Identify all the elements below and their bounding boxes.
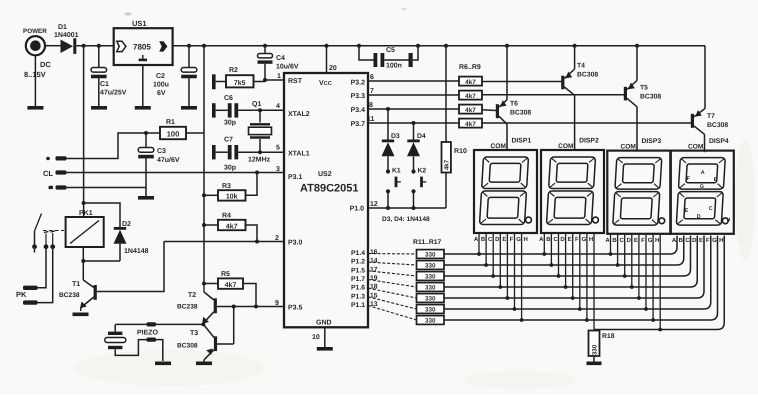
wire segment bus E [444,236,704,298]
svg-text:R10: R10 [454,148,467,155]
svg-text:330: 330 [591,344,598,355]
svg-text:C: C [709,206,713,212]
piezo PIEZO [105,330,159,350]
node D3 branch [386,107,390,111]
node raw+ junction [82,44,86,48]
diode D2 1N4148 [114,221,149,261]
wire contact to PK terminal 1 [38,247,47,288]
svg-text:C: C [488,236,493,243]
svg-text:12: 12 [370,201,378,208]
svg-text:C1: C1 [100,81,109,88]
svg-text:COM: COM [558,143,574,150]
diode D3 1N4148 [382,109,400,170]
node DISP2 F junction [578,307,582,311]
ground (piezo) [155,362,171,366]
wire piezo bottom to ground [115,338,163,362]
resistor R18 330 [589,331,615,362]
resistor R17 330 [417,316,445,325]
node D4 branch [412,121,416,125]
node DISP1 C junction [491,274,495,278]
wire P1 pin to R14 [368,280,417,288]
svg-text:BC238: BC238 [177,304,198,311]
svg-text:B: B [612,237,617,244]
svg-text:DC: DC [40,60,51,69]
svg-text:COM: COM [491,143,507,150]
svg-text:D: D [697,214,701,220]
svg-text:P3.4: P3.4 [351,107,366,114]
svg-text:BC238: BC238 [59,292,80,299]
svg-text:7805: 7805 [133,43,151,52]
svg-text:9: 9 [275,300,279,307]
pushbutton K2 [411,168,426,209]
wire segment bus A [444,236,677,254]
node K1 junction [386,206,390,210]
svg-text:R3: R3 [222,183,231,190]
wire junction into PK1 coil [83,203,85,217]
wire contact to PK terminal 2 [38,247,53,303]
svg-text:F: F [510,236,514,243]
ground (US2 GND) [317,347,333,351]
wire R7 to T5 base [482,94,624,96]
wire DISP1 pin F drop [514,233,516,309]
wire DISP3 pin H drop [659,235,661,330]
svg-text:RST: RST [288,78,303,85]
svg-text:100: 100 [167,130,180,139]
resistor R2 7k5 [212,67,265,89]
svg-text:T2: T2 [188,292,196,299]
svg-text:D3, D4: 1N4148: D3, D4: 1N4148 [382,216,430,223]
wire R9 to T7 base [482,122,691,124]
svg-text:C: C [553,236,558,243]
connector POWER (DC jack) [23,28,51,79]
node DISP2 B junction [550,263,554,267]
node DISP3 A junction [609,252,613,256]
wire DISP1 pin B drop [485,233,487,265]
svg-text:R18: R18 [602,333,615,340]
svg-text:330: 330 [425,307,436,314]
display DISP2 7-segment [539,138,604,244]
svg-text:D: D [560,236,565,243]
svg-text:C3: C3 [157,148,166,155]
svg-text:C4: C4 [276,55,285,62]
svg-text:BC308: BC308 [577,72,598,79]
node DISP3 G junction [651,318,655,322]
svg-text:4k7: 4k7 [465,79,476,86]
wire segment bus B [444,236,684,265]
ground (power connector) [27,106,43,110]
svg-text:US1: US1 [132,19,147,28]
svg-text:K2: K2 [418,168,427,175]
node C1 junction [97,44,101,48]
svg-text:E: E [685,208,689,214]
svg-text:H: H [589,236,593,243]
svg-text:100n: 100n [386,63,402,70]
transistor T1 BC238 [59,280,97,311]
svg-text:C5: C5 [386,47,395,54]
svg-text:T7: T7 [707,113,715,120]
display DISP3 7-segment [605,138,670,244]
microcontroller US2 AT89C2051 [284,73,368,327]
svg-text:D3: D3 [391,133,400,140]
wire +5V rail corner down to T7 [704,46,706,109]
transistor T6 BC308 [496,44,532,150]
ground (R18) [587,362,602,366]
svg-text:P1.1: P1.1 [351,302,365,309]
wire D1 to 7805 input [76,45,113,47]
transistor T5 BC308 [624,44,662,151]
svg-text:P1.7: P1.7 [351,276,365,283]
wire junction to D2 top [84,203,120,227]
transistor T4 BC308 [561,44,598,150]
svg-text:P1.2: P1.2 [351,259,365,266]
svg-text:T6: T6 [510,101,518,108]
svg-text:E: E [568,236,572,243]
svg-text:US2: US2 [318,171,332,178]
wire P3.3 to R7 [368,94,459,96]
resistor R16 330 [417,305,445,314]
node DISP3 F junction [644,307,648,311]
svg-text:C: C [620,237,625,244]
wire segment bus F [444,236,711,309]
ground (T3 emitter) [196,362,212,366]
svg-text:C7: C7 [224,137,233,144]
svg-text:D4: D4 [417,133,426,140]
svg-text:330: 330 [425,263,436,270]
svg-text:T3: T3 [190,330,198,337]
wire R6 to T4 base [482,81,561,83]
svg-text:4k7: 4k7 [443,159,450,170]
svg-text:PK1: PK1 [79,210,93,217]
svg-text:D1: D1 [58,24,67,31]
svg-text:330: 330 [425,274,436,281]
svg-text:AT89C2051: AT89C2051 [300,183,359,195]
wire DISP2 pin G drop [586,233,588,320]
resistor R14 330 [417,283,445,292]
svg-text:A: A [605,237,610,244]
svg-text:B: B [546,236,551,243]
svg-text:7k5: 7k5 [234,79,246,87]
svg-text:4: 4 [276,103,280,110]
node DISP1 E junction [506,296,510,300]
resistor R7 4k7 [459,91,482,101]
node DISP2 D junction [564,285,568,289]
terminal CL [43,169,67,178]
capacitor C4 10u/6V [258,44,299,80]
capacitor C5 100n [357,44,420,70]
svg-text:330: 330 [425,318,436,325]
svg-text:R6..R9: R6..R9 [459,64,481,71]
wire DISP2 pin D drop [565,233,567,287]
diode D4 1N4148 [407,123,426,170]
svg-text:H: H [719,237,723,244]
svg-text:3: 3 [276,166,280,173]
svg-text:16: 16 [370,249,378,256]
svg-text:330: 330 [425,252,436,259]
svg-text:E: E [634,237,638,244]
svg-text:P3.0: P3.0 [288,240,303,247]
svg-text:330: 330 [425,296,436,303]
svg-text:E: E [502,236,506,243]
ground (C1) [91,106,107,110]
svg-text:F: F [641,237,645,244]
wire P1 pin to R17 [368,306,417,321]
resistor R4 4k7 [202,213,259,244]
svg-text:BC308: BC308 [640,94,661,101]
svg-text:4k7: 4k7 [465,107,476,114]
terminal PK pair [16,286,38,305]
svg-text:B: B [481,236,486,243]
svg-text:30p: 30p [224,120,236,127]
svg-text:PK: PK [16,290,27,299]
svg-text:B: B [679,237,684,244]
svg-text:D: D [495,236,500,243]
wire DISP3 pin E drop [638,234,640,298]
wire DISP3 pin A drop [610,234,612,254]
svg-text:R11..R17: R11..R17 [413,239,442,246]
wire 7805 ground lead [142,65,144,106]
svg-text:D: D [627,237,632,244]
wire DISP3 pin B drop [617,234,619,265]
svg-text:P3.3: P3.3 [351,93,366,100]
ground (T1 emitter) [73,313,89,317]
svg-text:17: 17 [370,266,378,273]
svg-text:4k7: 4k7 [465,121,476,128]
display DISP4 7-segment [671,138,734,244]
wire R8 to T6 base [482,109,496,112]
svg-text:CL: CL [43,169,53,178]
wire DISP2 pin A drop [543,233,545,254]
svg-text:C2: C2 [156,73,165,80]
svg-text:11: 11 [367,116,375,123]
svg-text:GND: GND [316,320,332,327]
relay contacts (PK1 switch) [32,214,64,253]
svg-text:7: 7 [370,88,374,95]
wire vertical bus from +5 rail [202,44,206,284]
svg-text:10u/6V: 10u/6V [276,63,299,71]
wire DISP3 pin F drop [645,234,647,309]
svg-text:A: A [539,236,544,243]
wire P1 pin to R12 [368,262,417,265]
wire terminal3 to ground [67,188,147,197]
resistor R13 330 [417,272,445,281]
wire P3.4 to R8 [368,108,459,110]
wire segment bus G [444,236,718,320]
wire segment bus D [444,236,697,287]
wire junction down to T1 collector [82,261,84,280]
capacitor C6 30p [212,95,284,127]
svg-text:4k7: 4k7 [465,93,476,100]
wire segment bus C [444,236,691,276]
svg-text:B: B [714,177,718,183]
svg-text:C: C [685,237,690,244]
svg-text:P3.5: P3.5 [288,305,303,312]
svg-text:47u/6V: 47u/6V [157,156,180,164]
svg-text:P1.4: P1.4 [351,250,365,257]
node DISP1 G junction [520,318,524,322]
svg-text:XTAL1: XTAL1 [288,151,310,158]
capacitor C1 47u/25V [91,46,127,106]
svg-text:G: G [648,237,653,244]
terminal input 3 [49,185,67,189]
svg-text:4k7: 4k7 [226,222,238,230]
wire DISP3 pin D drop [631,234,633,287]
capacitor C2 100u 6V [153,44,197,106]
svg-text:BC308: BC308 [510,110,531,117]
svg-text:G: G [582,236,587,243]
wire raw+ vertical down to relay [83,46,85,203]
wire DISP2 pin F drop [579,233,581,309]
transistor T7 BC308 [691,109,729,153]
terminal input 1 [46,156,66,160]
node DISP3 H junction [658,328,662,332]
node DISP3 C junction [623,274,627,278]
wire DISP1 pin E drop [506,233,508,298]
svg-text:T4: T4 [577,63,585,70]
wire P3.5 base line [234,306,284,308]
svg-text:6V: 6V [157,90,166,97]
svg-text:PIEZO: PIEZO [137,330,159,337]
display DISP1 7-segment [474,138,537,244]
svg-text:P3.2: P3.2 [351,80,366,87]
ground (7805) [135,106,151,110]
svg-text:G: G [700,184,704,190]
node DISP2 G junction [585,318,589,322]
node DISP2 A junction [542,252,546,256]
wire P1 pin to R11 [368,253,417,256]
relay PK1 [66,210,104,247]
wire P3.7 to R9 [368,122,459,124]
resistor R1 100 [146,119,204,139]
svg-text:R1: R1 [166,119,175,126]
svg-text:T5: T5 [640,85,648,92]
svg-text:8: 8 [369,102,373,109]
wire DISP2 pin C drop [558,233,560,276]
resistor R10 4k7 [442,44,467,208]
resistor R5 4k7 [202,271,258,309]
svg-text:P1.3: P1.3 [351,293,365,300]
wire DISP1 pin D drop [499,233,501,287]
resistor R12 330 [417,261,445,270]
svg-text:A: A [701,170,705,176]
transistor T2 BC238 [177,284,236,324]
pushbutton K1 [386,168,401,209]
display DISP4 segment letters [685,170,731,223]
svg-text:BC308: BC308 [707,122,728,129]
node PK1/D2/T1 junction [81,259,85,263]
svg-text:H: H [727,217,731,223]
transistor T3 BC308 [177,307,234,362]
node DISP1 D junction [498,285,502,289]
wire PK1 bottom to junction [82,247,84,261]
svg-text:100u: 100u [153,82,169,89]
node DISP1 B junction [484,263,488,267]
wire DISP1 pin A drop [478,233,480,254]
wire power connector to ground [34,55,36,106]
svg-text:10: 10 [312,334,320,341]
node DISP3 B junction [616,263,620,267]
svg-text:Q1: Q1 [252,101,261,108]
resistor R3 10k [202,171,259,201]
wire DISP3 pin G drop [652,234,654,320]
ground (terminal3/C3) [138,196,154,200]
wire P3.0 line [164,241,284,243]
svg-text:P3.1: P3.1 [288,174,303,181]
svg-text:DISP3: DISP3 [642,138,662,145]
svg-text:K1: K1 [392,168,401,175]
svg-text:H: H [524,236,528,243]
node R1/C3 junction [144,131,148,135]
resistor R6 4k7 [459,77,482,87]
node DISP3 E junction [637,296,641,300]
svg-text:2: 2 [275,235,279,242]
node DISP2 E junction [571,296,575,300]
ground (C2) [181,106,197,110]
svg-text:G: G [712,237,717,244]
svg-text:P1.6: P1.6 [351,285,365,292]
wire DISP3 pin C drop [624,234,626,276]
svg-text:14: 14 [370,258,378,265]
wire +5V rail [173,45,705,47]
svg-text:A: A [672,237,677,244]
svg-text:P3.7: P3.7 [351,121,366,128]
svg-text:12MHz: 12MHz [248,157,271,164]
svg-text:R2: R2 [229,67,238,74]
svg-text:20: 20 [329,65,337,72]
wire P1 pin to R16 [368,297,417,309]
svg-text:D2: D2 [122,221,131,228]
regulator US1 7805 [114,19,173,65]
svg-text:30p: 30p [224,165,236,172]
node K2 junction [412,206,416,210]
svg-text:1: 1 [277,73,281,80]
wire piezo top to T2/T3 junction [115,322,203,331]
svg-text:D: D [692,237,697,244]
wire DISP1 pin C drop [492,233,494,276]
node DISP1 A junction [477,252,481,256]
wire DP/H bus line [594,236,724,330]
wire T1 base to P3.0 net [97,242,164,292]
node DISP2 C junction [557,274,561,278]
wire P3.2 to R6 [368,80,459,82]
node DISP3 D junction [630,285,634,289]
svg-text:COM: COM [688,144,704,151]
svg-text:A: A [474,236,479,243]
svg-text:DISP4: DISP4 [709,138,729,145]
svg-text:H: H [655,237,659,244]
svg-text:VCC: VCC [319,80,332,87]
node DISP1 F junction [513,307,517,311]
svg-text:F: F [706,237,710,244]
wire DISP1 pin G drop [521,233,523,320]
crystal Q1 12MHz [248,101,272,164]
capacitor C3 47u/6V [138,133,180,188]
svg-text:E: E [699,237,703,244]
svg-text:1N4148: 1N4148 [124,248,149,255]
svg-text:47u/25V: 47u/25V [100,89,127,97]
pin 10 GND wire [312,327,325,347]
svg-text:P1.0: P1.0 [350,206,365,213]
resistor R9 4k7 [459,119,482,129]
svg-text:DISP1: DISP1 [512,138,532,145]
svg-text:XTAL2: XTAL2 [288,111,310,118]
svg-text:DISP2: DISP2 [579,138,599,145]
wire DISP2 pin H drop to R18 [593,234,595,330]
svg-text:F: F [575,236,579,243]
diode D1 1N4001 [54,24,79,54]
wire power connector to D1 [45,45,61,47]
node relay supply junction [82,201,86,205]
svg-text:1N4001: 1N4001 [54,32,79,39]
